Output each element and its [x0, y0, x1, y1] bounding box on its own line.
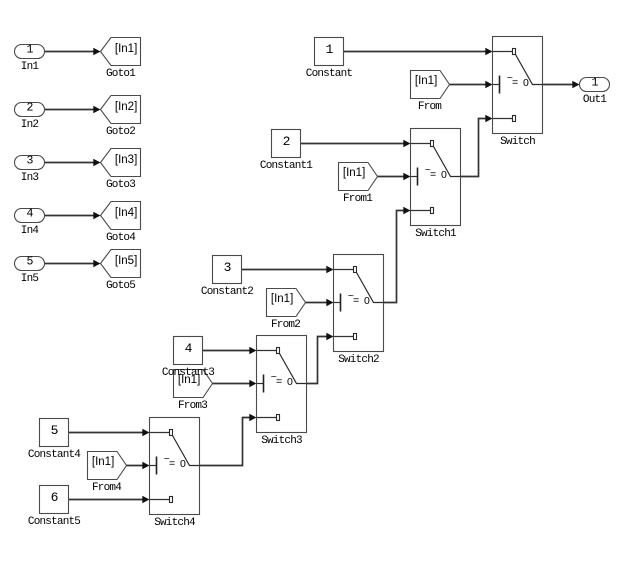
svg-text:Constant2: Constant2 — [201, 286, 253, 298]
svg-text:From: From — [418, 101, 442, 113]
svg-text:[In1]: [In1] — [115, 43, 137, 55]
svg-text:Constant5: Constant5 — [28, 516, 80, 528]
svg-text:[In2]: [In2] — [115, 101, 137, 113]
svg-text:0: 0 — [364, 295, 370, 307]
svg-text:6: 6 — [51, 490, 58, 505]
svg-text:[In5]: [In5] — [115, 255, 137, 267]
svg-text:Switch2: Switch2 — [338, 354, 379, 366]
svg-text:=: = — [512, 77, 518, 89]
svg-text:Switch1: Switch1 — [415, 228, 457, 240]
svg-text:5: 5 — [51, 423, 58, 438]
svg-text:In4: In4 — [21, 225, 40, 237]
svg-text:In3: In3 — [21, 172, 39, 184]
svg-text:=: = — [430, 169, 436, 181]
svg-text:0: 0 — [441, 169, 447, 181]
svg-text:In1: In1 — [21, 61, 40, 73]
svg-text:From1: From1 — [343, 193, 373, 205]
svg-text:[In1]: [In1] — [271, 293, 293, 305]
svg-text:3: 3 — [224, 260, 231, 275]
svg-text:Goto2: Goto2 — [106, 126, 135, 138]
svg-text:Switch: Switch — [500, 136, 535, 148]
svg-text:[In1]: [In1] — [92, 456, 114, 468]
svg-text:In5: In5 — [21, 273, 39, 285]
svg-text:Switch4: Switch4 — [154, 517, 196, 529]
svg-text:Constant4: Constant4 — [28, 449, 81, 461]
svg-text:Goto5: Goto5 — [106, 280, 135, 292]
svg-text:0: 0 — [180, 458, 186, 470]
svg-text:Constant1: Constant1 — [260, 160, 313, 172]
svg-text:[In4]: [In4] — [115, 207, 137, 219]
svg-text:Out1: Out1 — [583, 94, 607, 106]
svg-text:=: = — [169, 458, 175, 470]
svg-text:1: 1 — [326, 42, 334, 57]
svg-text:Constant: Constant — [306, 68, 353, 80]
svg-text:[In1]: [In1] — [415, 75, 437, 87]
svg-text:0: 0 — [287, 376, 293, 388]
svg-text:Goto1: Goto1 — [106, 68, 136, 80]
svg-text:Switch3: Switch3 — [261, 435, 302, 447]
svg-text:=: = — [353, 295, 359, 307]
svg-text:From3: From3 — [178, 400, 207, 412]
svg-text:Constant3: Constant3 — [162, 367, 214, 379]
svg-text:=: = — [276, 376, 282, 388]
svg-text:2: 2 — [283, 134, 290, 149]
svg-text:0: 0 — [523, 77, 529, 89]
svg-text:Goto3: Goto3 — [106, 179, 135, 191]
svg-text:From2: From2 — [271, 319, 300, 331]
svg-text:[In3]: [In3] — [115, 154, 137, 166]
svg-text:From4: From4 — [92, 482, 122, 494]
svg-text:[In1]: [In1] — [343, 167, 365, 179]
svg-text:Goto4: Goto4 — [106, 232, 136, 244]
svg-text:In2: In2 — [21, 119, 39, 131]
svg-text:4: 4 — [185, 341, 193, 356]
